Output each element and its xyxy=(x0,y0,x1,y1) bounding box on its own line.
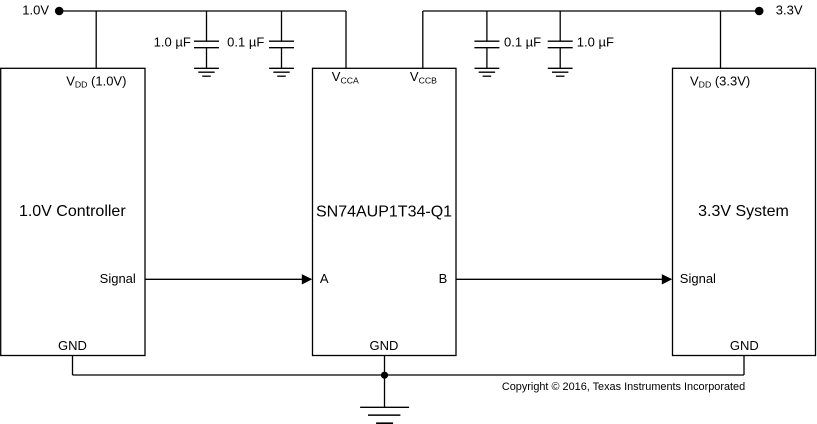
svg-text:3.3V System: 3.3V System xyxy=(698,203,789,220)
svg-text:GND: GND xyxy=(370,338,399,353)
svg-text:3.3V: 3.3V xyxy=(776,3,803,18)
svg-text:VCCA: VCCA xyxy=(332,69,359,85)
svg-text:Copyright © 2016, Texas Instru: Copyright © 2016, Texas Instruments Inco… xyxy=(502,381,745,393)
svg-text:1.0 µF: 1.0 µF xyxy=(154,35,191,50)
svg-text:VCCB: VCCB xyxy=(410,69,437,85)
svg-text:Signal: Signal xyxy=(680,271,716,286)
svg-text:A: A xyxy=(320,271,329,286)
svg-text:GND: GND xyxy=(730,338,759,353)
svg-text:GND: GND xyxy=(58,338,87,353)
svg-text:1.0 µF: 1.0 µF xyxy=(577,35,614,50)
svg-text:B: B xyxy=(439,271,448,286)
svg-text:VDD (1.0V): VDD (1.0V) xyxy=(66,73,126,89)
svg-text:0.1 µF: 0.1 µF xyxy=(504,35,541,50)
svg-text:1.0V Controller: 1.0V Controller xyxy=(19,203,126,220)
svg-text:SN74AUP1T34-Q1: SN74AUP1T34-Q1 xyxy=(316,203,452,220)
svg-text:0.1 µF: 0.1 µF xyxy=(227,35,264,50)
svg-text:VDD (3.3V): VDD (3.3V) xyxy=(690,73,750,89)
svg-text:Signal: Signal xyxy=(100,271,136,286)
svg-text:1.0V: 1.0V xyxy=(22,2,49,17)
